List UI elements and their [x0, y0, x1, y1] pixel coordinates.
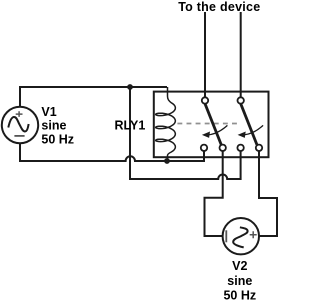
node junction at top wire	[127, 84, 133, 90]
relay RLY1 body outline	[154, 92, 269, 158]
switch SW1 right bottom terminal	[220, 145, 226, 151]
svg-text:50 Hz: 50 Hz	[41, 132, 74, 146]
voltage source V2	[223, 218, 259, 254]
wire from switch SW2 common-closed terminal down to V2 right terminal	[259, 151, 277, 236]
svg-text:sine: sine	[227, 274, 252, 288]
voltage source V1	[2, 107, 38, 143]
relay RLY1 coil	[156, 87, 176, 161]
wire from V1 plus terminal to relay coil top	[20, 87, 167, 107]
mechanical linkage dashed line	[177, 123, 240, 125]
wire from top junction down and right to switch SW2 normally-open terminal, with hop over vertical wire	[130, 87, 241, 179]
switch SW2 right bottom terminal	[256, 145, 262, 151]
node junction coil bottom to V1 minus wire	[164, 158, 170, 164]
svg-text:50 Hz: 50 Hz	[223, 288, 256, 300]
wire to the device from switch SW1 common	[204, 12, 206, 97]
svg-text:To the device: To the device	[178, 0, 260, 14]
switch SW1 blade	[205, 104, 221, 145]
switch SW2 actuation arrow	[238, 125, 264, 137]
svg-text:RLY1: RLY1	[115, 119, 146, 133]
switch SW2 blade	[241, 104, 257, 145]
switch SW1 left bottom terminal	[201, 145, 207, 151]
switch SW1 common terminal	[202, 97, 208, 103]
svg-text:sine: sine	[41, 119, 66, 133]
switch SW2 left bottom terminal	[237, 145, 243, 151]
wire from V1 minus terminal to switch SW1 normally-open terminal, with hop	[20, 143, 204, 161]
switch SW1 actuation arrow	[202, 125, 228, 137]
switch SW2 common terminal	[238, 97, 244, 103]
svg-text:V1: V1	[41, 105, 56, 119]
wire from switch SW1 common-closed terminal down to V2 left terminal	[205, 151, 223, 236]
svg-text:V2: V2	[232, 259, 247, 273]
wire to the device from switch SW2 common	[240, 12, 242, 97]
